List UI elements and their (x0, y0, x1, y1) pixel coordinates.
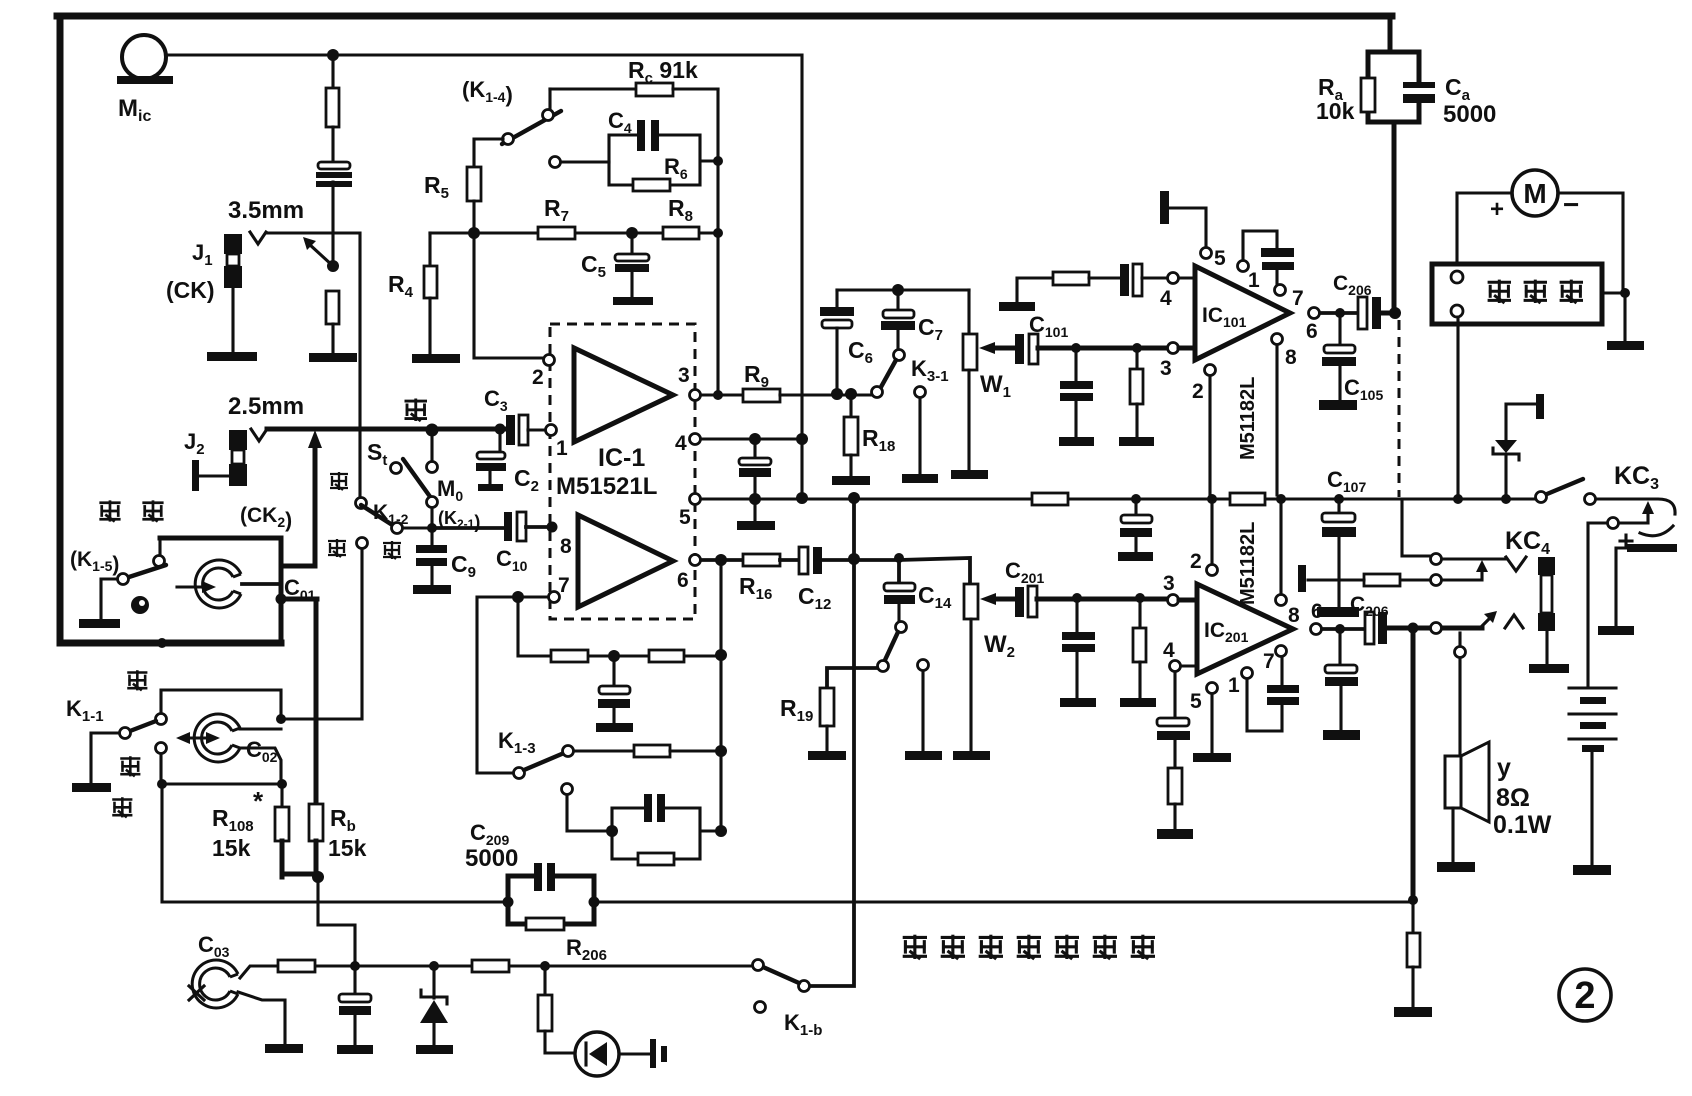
svg-text:10k: 10k (1316, 98, 1355, 124)
resistor LED branch (543, 966, 546, 995)
svg-text:M: M (1523, 178, 1546, 209)
pin 7 (549, 592, 560, 603)
wire J1 tip to K1-2 (266, 233, 360, 501)
op-amp IC-1b (578, 515, 673, 607)
wire C01 arrow to J2 line (313, 442, 318, 566)
svg-text:+: + (1490, 196, 1504, 223)
wire top border (57, 13, 1392, 20)
svg-text:M51182L: M51182L (1237, 522, 1259, 605)
diode D in circle (575, 1032, 619, 1076)
resistor R4 (428, 233, 431, 266)
wire left border (57, 16, 64, 641)
capacitor C209 loop (508, 876, 594, 924)
capacitor C105 (1338, 319, 1341, 346)
capacitor C5 (630, 238, 633, 255)
wire arrow bidirectional (184, 736, 212, 739)
svg-text:8: 8 (560, 535, 572, 558)
node J1 switch junction (327, 260, 339, 272)
svg-text:2: 2 (1190, 550, 1202, 573)
resistor R16 (701, 558, 743, 562)
resistor in main rail left (1032, 493, 1068, 505)
svg-text:5000: 5000 (1443, 101, 1496, 128)
erase head dot (131, 596, 149, 614)
wire bottom row (278, 964, 752, 967)
pin 4 of IC201 (1170, 661, 1181, 672)
capacitor C14 (897, 563, 901, 584)
resistor R18 (849, 394, 852, 417)
potentiometer W1 (967, 290, 970, 334)
wire speaker feed vertical (1411, 628, 1416, 901)
node pin5 tap (796, 492, 808, 504)
resistor R6 (633, 179, 670, 191)
head block C01 with K1-5 (99, 500, 120, 521)
svg-text:1: 1 (556, 437, 568, 460)
ground mic bias (309, 353, 357, 362)
svg-text:(CK): (CK) (166, 277, 215, 303)
capacitor C10 (432, 526, 505, 530)
microphone Mic (122, 35, 166, 79)
head block C02 with K1-1 (127, 670, 147, 690)
wire dashed from C206 node (1398, 320, 1401, 497)
zener diode (432, 966, 435, 998)
op-amp IC-1a (574, 348, 673, 442)
capacitor C101 (1015, 334, 1024, 364)
wire mic to pin4 net (166, 55, 802, 498)
motor M (1512, 170, 1558, 216)
svg-text:2: 2 (1192, 380, 1204, 403)
capacitor between pin4 pin5 (701, 437, 802, 440)
svg-text:8: 8 (1285, 346, 1297, 369)
pin 6 (690, 555, 701, 566)
svg-text:4: 4 (1163, 639, 1175, 662)
svg-text:M51521L: M51521L (556, 473, 657, 500)
switch 放 contact of K1-2 (357, 538, 368, 549)
svg-text:3: 3 (1163, 572, 1175, 595)
speaker Y (1458, 633, 1461, 646)
svg-text:2.5mm: 2.5mm (228, 393, 304, 420)
svg-text:5: 5 (679, 506, 691, 529)
pin 7 of IC101 (1275, 285, 1286, 296)
switch K1-2 (330, 472, 348, 490)
svg-text:5: 5 (1190, 690, 1202, 713)
svg-text:7: 7 (558, 574, 570, 597)
node C01 box bottom junction (157, 638, 167, 648)
figure number 2 (1559, 969, 1611, 1021)
svg-text:5: 5 (1214, 247, 1226, 270)
wire K1-b vertical (810, 498, 854, 986)
battery B (1569, 688, 1616, 739)
svg-text:1: 1 (1228, 674, 1240, 697)
resistor at IC201 pin3 node (1138, 598, 1141, 628)
pin 1 of IC201 (1242, 668, 1253, 679)
resistor in main rail right (1207, 494, 1217, 504)
label note 粗线为改动部分 (903, 935, 927, 959)
resistor R19 (820, 688, 834, 726)
op-amp IC101 (1195, 266, 1290, 360)
pin 2 of IC101 (1205, 365, 1216, 376)
wire arrow head select (177, 585, 208, 588)
wire C01 box bottom (60, 640, 281, 647)
battery tap contact (1608, 518, 1619, 529)
switch K1-4 throw contact (550, 157, 561, 168)
capacitor / resistor loop lower (606, 825, 618, 837)
svg-text:*: * (253, 786, 264, 816)
IC op-amp U1 IC-1 dashed box (550, 324, 695, 619)
node pin4 tap (796, 433, 808, 445)
pin 5 (690, 494, 701, 505)
pin 1 of IC101 (1238, 261, 1249, 272)
wire feedback vertical (716, 89, 719, 395)
svg-text:6: 6 (1306, 320, 1318, 343)
capacitor bottom left (353, 972, 356, 995)
wire feedback row under IC-1 (518, 597, 721, 656)
label 右 channel (405, 399, 428, 422)
svg-text:3: 3 (678, 364, 690, 387)
svg-text:2: 2 (532, 366, 544, 389)
capacitor at W2 node (1075, 598, 1078, 632)
switch K1-3 unused contact (562, 784, 573, 795)
power bar with plus (1627, 544, 1677, 552)
svg-text:8Ω: 8Ω (1496, 784, 1530, 812)
svg-text:1: 1 (1248, 269, 1260, 292)
switch K1-b (799, 981, 810, 992)
pin 1 (546, 425, 557, 436)
svg-text:3.5mm: 3.5mm (228, 197, 304, 224)
resistor mic bias upper (331, 55, 334, 88)
switch K3-1 ground contact (915, 387, 926, 398)
pin 6 of IC101 (1309, 308, 1320, 319)
wire R7 R8 row (430, 231, 718, 234)
wire J1 switch arrow (309, 244, 333, 266)
resistor at IC101 pin3 node (1135, 348, 1138, 369)
resistor mic bias lower (326, 291, 339, 324)
pin 4 (690, 434, 701, 445)
resistor R7 (538, 227, 575, 239)
svg-text:15k: 15k (328, 835, 367, 861)
jack body KC4 (1538, 557, 1555, 575)
wire pin6 vertical net (719, 560, 722, 831)
capacitor C201 (1015, 587, 1024, 617)
svg-text:8: 8 (1288, 604, 1300, 627)
switch K3-2 unused contact (918, 660, 929, 671)
speed control board 稳速板 (1432, 264, 1602, 324)
pin 8 of IC201 (1276, 595, 1287, 606)
switch M0 contact (430, 429, 433, 461)
capacitor C206 (upper) (1358, 297, 1367, 329)
pin 2 of IC201 (1207, 565, 1218, 576)
diode into rail (1501, 494, 1511, 504)
capacitor mic coupling (318, 162, 350, 169)
pin 7 of IC201 (1276, 646, 1287, 657)
pin 3 (690, 390, 701, 401)
svg-text:y: y (1497, 754, 1511, 782)
switch K3-1 (894, 350, 905, 361)
record head C02 (194, 714, 240, 762)
ground J1 (207, 352, 257, 361)
capacitor C7 (896, 290, 899, 310)
capacitor C12 (780, 558, 800, 562)
resistor R8 (663, 227, 699, 239)
svg-text:6: 6 (677, 569, 689, 592)
svg-text:4: 4 (675, 432, 687, 455)
capacitor at W1 node (1074, 348, 1077, 381)
node mic junction (327, 49, 339, 61)
resistor R108 (280, 784, 283, 807)
wire top row to W1 (837, 288, 969, 291)
capacitor C6 (835, 290, 838, 308)
pin4 bias chain IC101 (999, 302, 1035, 311)
switch K2-1 contact (427, 497, 438, 508)
capacitor C9 (430, 528, 433, 545)
capacitor C at IC201 output (1338, 635, 1341, 666)
capacitor under feedback row (612, 662, 615, 687)
capacitor C107 (1334, 494, 1344, 504)
svg-text:0.1W: 0.1W (1493, 811, 1552, 839)
capacitor C3 (267, 427, 506, 432)
pin 5 of IC201 (1207, 683, 1218, 694)
pin 5 of IC101 (1201, 248, 1212, 259)
capacitor C2 (498, 429, 501, 452)
op-amp IC201 (1197, 584, 1293, 674)
resistor under speaker rail (1411, 900, 1414, 933)
record head C01 (195, 560, 241, 608)
capacitor C206 (lower) (1365, 612, 1374, 644)
svg-text:M51182L: M51182L (1237, 377, 1259, 460)
wire pin7 branch (477, 597, 548, 773)
capacitor at 1136 node (1131, 494, 1141, 504)
resistor Ra capacitor Ca block (1368, 16, 1419, 311)
potentiometer W2 (964, 584, 978, 619)
wire main rail y=499 (701, 497, 1541, 500)
svg-text:7: 7 (1292, 287, 1304, 310)
pin 6 of IC201 (1311, 624, 1322, 635)
pin 8 (547, 522, 558, 533)
svg-text:4: 4 (1160, 287, 1172, 310)
wire pin2 branch (474, 233, 544, 358)
pin 8 of IC101 (1272, 334, 1283, 345)
switch KC3 (1536, 492, 1547, 503)
svg-text:5000: 5000 (465, 845, 518, 872)
resistor Rb (309, 804, 323, 841)
wire R108 node to bottom row (318, 879, 355, 966)
switch K3-2 (896, 622, 907, 633)
svg-text:15k: 15k (212, 835, 251, 861)
resistor R5 (467, 167, 481, 201)
speaker jack on output line (1431, 623, 1442, 634)
svg-text:IC-1: IC-1 (598, 444, 645, 472)
svg-text:7: 7 (1263, 650, 1275, 673)
pin 2 (544, 355, 555, 366)
svg-text:3: 3 (1160, 357, 1172, 380)
wire C01 output (314, 599, 319, 804)
svg-text:2: 2 (1574, 975, 1595, 1017)
wire bottom rail (162, 784, 1413, 902)
wire R9 output row (701, 393, 743, 396)
